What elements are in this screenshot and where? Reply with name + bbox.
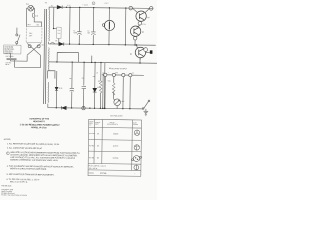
svg-text:P/N 595-2105: P/N 595-2105	[1, 185, 11, 187]
socket block	[57, 27, 62, 38]
fuse F1	[33, 13, 35, 17]
svg-text:120 VAC: 120 VAC	[5, 61, 11, 64]
terminal post 1	[104, 73, 107, 76]
wire bottom rail	[48, 104, 144, 109]
svg-text:Q3: Q3	[97, 157, 99, 159]
wire TP to Q2	[137, 25, 140, 27]
svg-text:MJE340: MJE340	[113, 158, 119, 160]
note 4	[7, 165, 74, 171]
svg-text:NENT: NENT	[95, 123, 99, 125]
svg-text:5. SEE CHART FOR TRANSISTOR R: 5. SEE CHART FOR TRANSISTOR REPLACEMENTS…	[7, 173, 55, 177]
diode D4 small	[55, 87, 58, 90]
symbol bottom	[134, 165, 139, 170]
svg-text:HEATHKIT®: HEATHKIT®	[33, 120, 45, 123]
resistor R2	[99, 81, 102, 93]
secondary winding bottom	[47, 82, 50, 103]
capacitor C1	[77, 32, 81, 35]
wire switch S2	[143, 101, 148, 109]
output terminal dot	[150, 50, 153, 53]
wire shield box	[57, 52, 79, 62]
terminal post 4	[129, 74, 132, 77]
svg-text:120V 60 Hz: 120V 60 Hz	[4, 51, 12, 53]
svg-text:417-134: 417-134	[89, 133, 95, 135]
junction dots	[52, 6, 142, 109]
symbol row1	[134, 130, 139, 135]
wire lower branch D4	[55, 71, 57, 108]
svg-text:470: 470	[92, 76, 95, 78]
svg-text:Q1: Q1	[147, 17, 149, 19]
transformer core	[44, 9, 47, 104]
test point right of Q3	[144, 48, 148, 52]
svg-text:−: −	[126, 72, 127, 74]
capacitor C5	[81, 86, 86, 95]
svg-text:PL1: PL1	[26, 4, 29, 6]
wire right cluster left leg	[124, 8, 126, 45]
wire output cap	[145, 109, 147, 111]
svg-text:CONFIG: CONFIG	[133, 124, 138, 126]
wire lower branch C4	[71, 62, 74, 108]
circled plus	[92, 2, 95, 5]
svg-text:10K: 10K	[98, 81, 101, 83]
svg-text:60 Hz: 60 Hz	[5, 64, 9, 66]
transistor Q1	[136, 11, 147, 22]
wire lamp left leg	[26, 8, 28, 26]
meter M1	[102, 20, 114, 30]
svg-text:115V: 115V	[29, 33, 32, 35]
svg-text:Q1: Q1	[97, 133, 99, 135]
wire lower branch plain	[103, 63, 106, 109]
svg-text:D2: D2	[55, 40, 57, 42]
wire lamp right leg to fuse	[33, 8, 42, 26]
wire cap C2 branch	[92, 8, 94, 45]
secondary winding upper	[49, 10, 50, 41]
svg-text:+: +	[93, 3, 94, 5]
svg-text:1. ALL RESISTOR VALUES ARE IN: 1. ALL RESISTOR VALUES ARE IN OHMS (K=10…	[7, 142, 60, 146]
svg-text:Q2: Q2	[142, 31, 144, 33]
svg-text:2N3055: 2N3055	[113, 133, 118, 135]
wire Q1 to TP	[140, 20, 141, 22]
capacitor C4	[70, 88, 74, 91]
wire long rail B	[48, 62, 157, 63]
table bottom row 2	[89, 172, 136, 175]
lamp PL1	[28, 5, 34, 11]
test point TP1	[133, 36, 137, 40]
svg-text:1K: 1K	[96, 72, 98, 74]
wire TP down	[134, 40, 136, 45]
svg-text:3: 3	[7, 152, 8, 154]
table row 1	[89, 133, 118, 135]
pot R11	[113, 99, 120, 109]
table bottom row 1	[89, 164, 106, 170]
svg-text:BASE: BASE	[133, 121, 137, 124]
switch SW1	[16, 34, 20, 44]
svg-text:BLK: BLK	[36, 24, 39, 26]
svg-text:57-27 (SI): 57-27 (SI)	[100, 173, 107, 175]
svg-text:2 A: 2 A	[35, 14, 39, 17]
svg-text:120 V 1/25 W: 120 V 1/25 W	[89, 168, 98, 170]
title block	[20, 117, 61, 129]
svg-text:230V: 230V	[29, 35, 32, 37]
TP circle on rail left	[129, 6, 133, 10]
svg-text:SEC 2: 6.3 V AT 1 A.: SEC 2: 6.3 V AT 1 A.	[10, 180, 28, 183]
svg-text:2N3772: 2N3772	[113, 146, 118, 148]
svg-text:417-801: 417-801	[89, 145, 95, 147]
wire plain branch	[69, 7, 71, 44]
svg-text:DC: DC	[132, 72, 134, 74]
svg-text:1/4 A SLOW: 1/4 A SLOW	[4, 45, 13, 48]
wire cap C1 branch	[78, 7, 80, 44]
svg-text:+ 13.8 V: + 13.8 V	[83, 4, 88, 6]
svg-text:MENTS IN CIRCUIT DESIGN ARE MA: MENTS IN CIRCUIT DESIGN ARE MADE.	[10, 167, 47, 170]
test point mid	[138, 21, 142, 25]
wire top rail	[49, 7, 153, 11]
wire lower branch C5	[83, 62, 86, 108]
switch S2	[142, 100, 150, 109]
note 6	[7, 179, 40, 184]
transistor Q2	[130, 26, 141, 37]
wire secondary lead to socket	[53, 7, 59, 44]
svg-text:Q3: Q3	[130, 54, 132, 56]
svg-text:WHT: WHT	[27, 24, 30, 26]
component table	[88, 119, 142, 176]
secondary winding lower	[47, 48, 50, 71]
wire Q2 down	[134, 35, 136, 37]
svg-text:500: 500	[87, 32, 90, 34]
terminal post 3	[122, 73, 125, 76]
svg-text:GND: GND	[115, 72, 118, 74]
svg-text:D1: D1	[51, 5, 53, 7]
svg-text:→ + 15 V: → + 15 V	[102, 3, 109, 5]
primary cross wires	[27, 43, 41, 55]
svg-text:+: +	[99, 21, 100, 23]
fuse info box	[4, 45, 21, 55]
svg-text:HEATH: HEATH	[89, 120, 93, 123]
svg-text:Q2: Q2	[97, 145, 99, 147]
secondary loop at tap	[50, 43, 55, 44]
zener ZD1	[93, 88, 97, 92]
symbol row3 TO-3 case	[131, 156, 141, 162]
capacitor C2	[91, 32, 95, 35]
svg-text:C2: C2	[87, 30, 89, 32]
svg-text:R10: R10	[108, 80, 111, 82]
svg-text:LINE ONLY: LINE ONLY	[4, 53, 12, 55]
winding box	[48, 71, 55, 79]
diode D3 on bottom rail	[61, 106, 66, 109]
table row 3	[89, 157, 119, 159]
pot on bottom rail	[82, 106, 85, 109]
wire lower branch R2	[99, 63, 102, 109]
wire lower branch ZD1	[93, 62, 96, 108]
wire terminal drops	[103, 75, 131, 109]
svg-text:+: +	[108, 72, 109, 74]
svg-text:417-811: 417-811	[89, 157, 95, 159]
svg-text:2. ALL CAPACITOR VALUES ARE I: 2. ALL CAPACITOR VALUES ARE IN µF.	[7, 147, 43, 150]
svg-text:MAY BE: MAY BE	[110, 121, 115, 124]
primary winding box	[26, 26, 42, 43]
svg-text:C1: C1	[73, 30, 75, 32]
wire mid rail	[49, 42, 156, 45]
wire terminal rail	[102, 74, 144, 77]
diode D2 on mid rail	[59, 42, 64, 45]
svg-text:57-27: 57-27	[67, 5, 71, 7]
table header text	[89, 120, 138, 127]
svg-text:PILOT LAMP NE-2 #412-15: PILOT LAMP NE-2 #412-15	[89, 164, 106, 167]
svg-text:+1000: +1000	[73, 32, 77, 34]
svg-text:.05: .05	[69, 78, 71, 80]
wire meter branch	[108, 8, 110, 45]
svg-text:+: +	[135, 173, 136, 175]
wire switch upper stub	[16, 28, 18, 34]
wire stub node B	[91, 56, 93, 63]
wire Q3 out lead	[146, 52, 150, 54]
svg-text:BLOW FUSE: BLOW FUSE	[4, 48, 13, 50]
terminal post 2	[112, 73, 115, 76]
svg-text:LINE CORD: LINE CORD	[6, 56, 14, 58]
resistor R10	[112, 83, 115, 95]
TP circle on rail right	[149, 7, 153, 11]
copyright block	[1, 188, 27, 197]
svg-text:REGULATED OUTPUT: REGULATED OUTPUT	[109, 67, 127, 70]
svg-text:C5: C5	[82, 78, 84, 80]
svg-text:R9: R9	[139, 58, 141, 60]
svg-text:VOLTAGE CHART: VOLTAGE CHART	[110, 114, 123, 117]
wire Q3 top lead	[136, 45, 137, 49]
svg-text:57-51: 57-51	[142, 24, 146, 26]
table row 2	[89, 145, 118, 147]
svg-text:MARKED OTHERWISE. VOLTAGES MAY: MARKED OTHERWISE. VOLTAGES MAY VARY ±20%…	[10, 158, 58, 162]
transistor Q3	[135, 47, 146, 58]
svg-text:56-56: 56-56	[59, 88, 63, 90]
diode D1 on top rail	[57, 5, 62, 8]
svg-text:MODEL IP-2718: MODEL IP-2718	[31, 127, 47, 129]
note 3 circled	[6, 152, 9, 155]
svg-text:DIODES: DIODES	[89, 172, 94, 174]
wire rail to Q1 leads	[132, 8, 149, 13]
symbol row2	[134, 145, 139, 150]
svg-text:T1: T1	[45, 2, 47, 4]
wire plug leads	[10, 54, 40, 68]
output capacitor C9	[144, 111, 149, 116]
wire switch lower stub	[16, 44, 18, 45]
wire Q3 bottom lead	[139, 58, 141, 63]
strain bar	[7, 58, 17, 60]
svg-text:NOTES:: NOTES:	[4, 139, 12, 141]
svg-text:Copyright © 1978: Copyright © 1978	[1, 188, 13, 191]
